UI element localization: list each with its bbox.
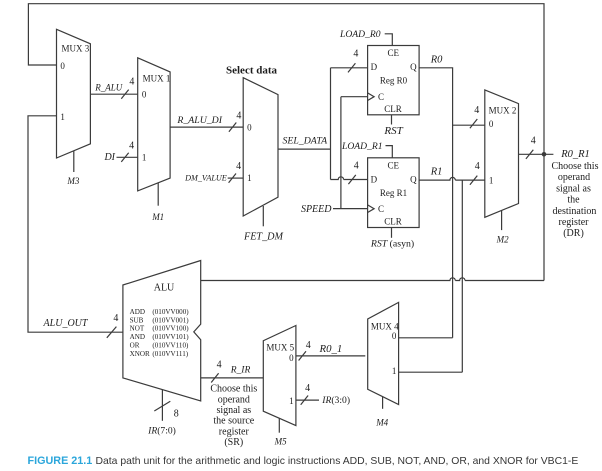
- wire slash R0_R1 bus: [526, 150, 533, 159]
- svg-text:(010VV111): (010VV111): [152, 350, 188, 358]
- svg-text:R0_1: R0_1: [319, 343, 343, 355]
- svg-text:Data path unit for the arithme: Data path unit for the arithmetic and lo…: [96, 456, 579, 467]
- svg-text:4: 4: [217, 359, 222, 370]
- wire DM_VALUE input: [228, 177, 244, 179]
- svg-text:Choose this: Choose this: [210, 384, 257, 395]
- wire select M1: [157, 183, 159, 206]
- svg-text:NOT: NOT: [130, 325, 145, 333]
- svg-text:FET_DM: FET_DM: [243, 231, 284, 242]
- svg-text:C: C: [378, 92, 384, 102]
- mux MUX2: [485, 90, 519, 217]
- svg-text:CE: CE: [387, 48, 399, 58]
- svg-text:1: 1: [60, 112, 65, 122]
- svg-text:(010VV100): (010VV100): [152, 325, 189, 333]
- mux FET_DM select data: [243, 78, 278, 216]
- wire slash R0_1 bus: [299, 351, 306, 360]
- op-amp ALU U1: [123, 261, 201, 401]
- wire DR operand to ALU with hops: [201, 278, 544, 281]
- svg-text:destination: destination: [553, 206, 597, 217]
- wire MUX2 output R0_R1: [519, 153, 554, 155]
- svg-text:0: 0: [289, 353, 294, 363]
- svg-text:(010VV000): (010VV000): [152, 308, 189, 316]
- svg-text:1: 1: [247, 173, 252, 183]
- svg-text:4: 4: [129, 140, 134, 151]
- svg-text:R0_R1: R0_R1: [560, 149, 590, 160]
- svg-text:M1: M1: [151, 212, 164, 222]
- svg-text:MUX 2: MUX 2: [489, 105, 517, 115]
- wire top feedback R0_R1 to MUX3 input 0: [28, 4, 544, 281]
- svg-text:M5: M5: [274, 437, 287, 447]
- wire select FET_DM: [262, 206, 264, 226]
- svg-text:0: 0: [142, 89, 147, 99]
- wire R1 output net with hop: [399, 177, 485, 372]
- wire slash R_ALU_DI bus: [229, 123, 236, 132]
- svg-text:the source: the source: [213, 416, 254, 427]
- wire slash MUX2 in0 bus: [470, 119, 477, 128]
- svg-text:1: 1: [392, 366, 397, 376]
- svg-text:RST: RST: [383, 125, 403, 137]
- wire IR(3:0) input: [296, 399, 319, 401]
- wire slash DM_VALUE bus: [229, 174, 236, 183]
- svg-text:XNOR: XNOR: [130, 350, 150, 358]
- svg-text:8: 8: [174, 409, 179, 420]
- svg-text:(SR): (SR): [224, 437, 243, 448]
- svg-text:SEL_DATA: SEL_DATA: [282, 136, 328, 147]
- svg-text:Reg R1: Reg R1: [380, 188, 407, 198]
- register Reg R0: [368, 46, 420, 115]
- svg-text:4: 4: [531, 135, 536, 146]
- wire IR(7:0) opcode input: [161, 390, 163, 421]
- wire slash IR(3:0) bus: [301, 396, 308, 405]
- svg-text:SUB: SUB: [130, 316, 144, 324]
- svg-text:4: 4: [306, 340, 311, 351]
- svg-text:MUX 1: MUX 1: [143, 74, 171, 84]
- wire DI input: [117, 156, 138, 158]
- wire LOAD_R1: [386, 146, 393, 158]
- svg-text:DI: DI: [103, 152, 115, 163]
- svg-text:ADD: ADD: [130, 308, 145, 316]
- svg-text:R0: R0: [430, 54, 443, 65]
- svg-text:Q: Q: [410, 174, 417, 184]
- svg-text:1: 1: [489, 176, 494, 186]
- mux MUX5: [263, 326, 296, 426]
- wire select M2: [501, 211, 503, 231]
- svg-text:4: 4: [305, 383, 310, 394]
- svg-text:FIGURE 21.1: FIGURE 21.1: [28, 455, 93, 467]
- pin clock triangle R1: [368, 205, 375, 213]
- svg-text:MUX 4: MUX 4: [371, 322, 399, 332]
- wire RST stub R0: [391, 115, 393, 125]
- svg-text:LOAD_R0: LOAD_R0: [339, 29, 381, 40]
- wire R0_1 MUX4 to MUX5: [296, 355, 365, 357]
- svg-text:4: 4: [354, 160, 359, 171]
- svg-text:CLR: CLR: [384, 104, 402, 114]
- svg-text:R_ALU: R_ALU: [94, 82, 123, 92]
- svg-text:M3: M3: [66, 176, 79, 186]
- svg-text:IR(3:0): IR(3:0): [321, 395, 350, 406]
- svg-text:DM_VALUE: DM_VALUE: [184, 173, 227, 182]
- svg-text:Select data: Select data: [226, 65, 278, 77]
- svg-text:R1: R1: [430, 166, 443, 177]
- mux MUX4: [368, 302, 399, 404]
- svg-text:(010VV001): (010VV001): [152, 316, 189, 324]
- svg-text:0: 0: [247, 122, 252, 132]
- wire select M5: [278, 418, 280, 432]
- svg-text:IR(7:0): IR(7:0): [147, 425, 176, 436]
- pin clock triangle R0: [368, 93, 375, 101]
- svg-text:4: 4: [353, 49, 358, 60]
- svg-text:ALU: ALU: [154, 283, 175, 294]
- svg-text:4: 4: [129, 77, 134, 88]
- svg-text:Choose this: Choose this: [552, 161, 599, 172]
- wire slash D0 bus: [348, 63, 355, 72]
- svg-text:Reg R0: Reg R0: [380, 75, 408, 85]
- svg-text:D: D: [371, 174, 378, 184]
- svg-text:LOAD_R1: LOAD_R1: [341, 141, 383, 152]
- wire slash R_ALU bus: [121, 90, 128, 99]
- wire R_ALU_DI MUX1 to select-data mux: [170, 126, 243, 128]
- svg-text:register: register: [219, 426, 250, 437]
- svg-text:4: 4: [236, 161, 241, 172]
- mux MUX3: [57, 29, 91, 158]
- svg-text:operand: operand: [218, 394, 250, 405]
- wire R0 output net: [399, 68, 485, 338]
- svg-text:1: 1: [289, 396, 294, 406]
- svg-text:4: 4: [236, 110, 241, 121]
- svg-text:AND: AND: [130, 333, 145, 341]
- register Reg R1: [368, 158, 420, 228]
- wire RST asyn stub R1: [391, 228, 393, 238]
- svg-text:1: 1: [142, 153, 147, 163]
- wire slash IR(7:0) bus: [154, 401, 170, 411]
- svg-text:CE: CE: [387, 160, 399, 170]
- svg-text:the: the: [567, 195, 580, 206]
- svg-text:M2: M2: [496, 235, 509, 245]
- svg-text:4: 4: [113, 313, 118, 324]
- svg-text:signal as: signal as: [216, 405, 251, 416]
- svg-text:signal as: signal as: [556, 183, 591, 194]
- svg-text:CLR: CLR: [384, 216, 402, 226]
- wire slash R_IR bus: [211, 373, 218, 382]
- svg-text:SPEED: SPEED: [301, 204, 332, 215]
- svg-text:Q: Q: [410, 62, 417, 72]
- svg-text:0: 0: [60, 61, 65, 71]
- mux MUX1: [138, 58, 170, 191]
- svg-text:R_ALU_DI: R_ALU_DI: [176, 115, 222, 126]
- svg-text:0: 0: [392, 331, 397, 341]
- svg-text:4: 4: [475, 161, 480, 172]
- svg-text:RST (asyn): RST (asyn): [370, 239, 414, 250]
- wire slash ALU_OUT bus: [107, 327, 117, 338]
- svg-text:4: 4: [474, 105, 479, 116]
- svg-text:R_IR: R_IR: [230, 366, 251, 376]
- wire LOAD_R0: [385, 34, 393, 46]
- svg-text:register: register: [559, 217, 590, 228]
- svg-text:D: D: [371, 62, 378, 72]
- svg-text:MUX 3: MUX 3: [62, 43, 90, 53]
- wire slash MUX2 in1 bus: [470, 176, 477, 185]
- wire R_ALU MUX3 to MUX1: [90, 93, 137, 95]
- wire slash D1 bus: [348, 175, 355, 184]
- wire SEL_DATA to registers D: [278, 68, 368, 180]
- wire select M3: [73, 151, 75, 172]
- svg-text:(DR): (DR): [563, 228, 584, 239]
- wire SPEED to clock C inputs: [333, 97, 368, 209]
- svg-text:operand: operand: [558, 172, 590, 183]
- wire ALU_OUT feedback to MUX3 input 1: [28, 116, 123, 332]
- wire R_IR MUX5 to ALU: [201, 377, 264, 379]
- svg-text:ALU_OUT: ALU_OUT: [43, 318, 89, 329]
- svg-text:(010VV101): (010VV101): [152, 333, 189, 341]
- wire select M4: [382, 397, 384, 409]
- svg-text:M4: M4: [375, 417, 388, 427]
- svg-text:C: C: [378, 204, 384, 214]
- svg-text:OR: OR: [130, 342, 140, 350]
- wire slash DI bus: [121, 153, 128, 162]
- svg-text:MUX 5: MUX 5: [266, 342, 294, 352]
- node R0_R1 junction dot: [542, 152, 547, 157]
- svg-text:0: 0: [489, 119, 494, 129]
- svg-text:(010VV110): (010VV110): [152, 342, 189, 350]
